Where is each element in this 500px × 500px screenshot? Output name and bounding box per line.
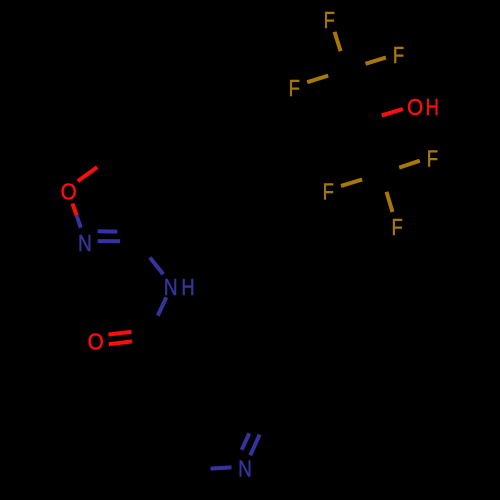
svg-text:F: F bbox=[289, 76, 300, 101]
svg-text:N: N bbox=[238, 457, 252, 482]
svg-text:F: F bbox=[323, 180, 334, 205]
svg-text:F: F bbox=[324, 8, 335, 33]
svg-text:H: H bbox=[426, 95, 439, 121]
svg-text:F: F bbox=[392, 215, 403, 240]
svg-text:O: O bbox=[88, 328, 104, 354]
svg-text:H: H bbox=[181, 275, 194, 301]
svg-text:F: F bbox=[393, 43, 404, 68]
svg-text:F: F bbox=[427, 146, 438, 171]
svg-text:O: O bbox=[61, 178, 77, 204]
svg-text:N: N bbox=[78, 231, 92, 256]
svg-text:N: N bbox=[164, 275, 178, 300]
svg-text:O: O bbox=[407, 94, 423, 120]
